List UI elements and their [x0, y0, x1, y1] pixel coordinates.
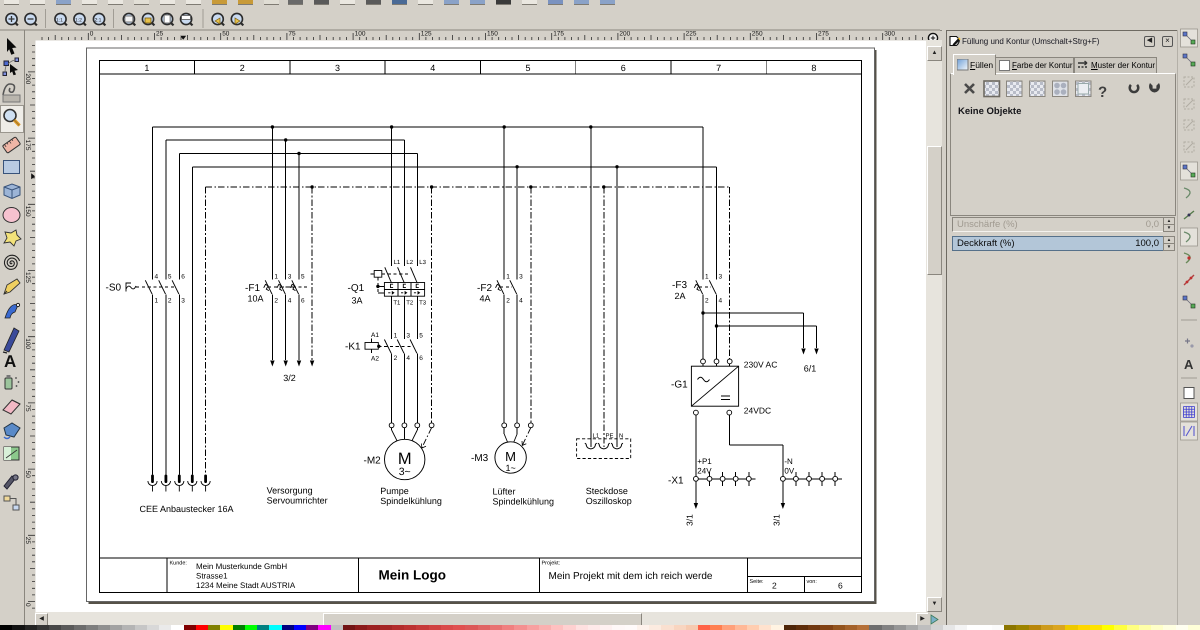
- svg-text:1: 1: [144, 63, 149, 73]
- svg-text:3: 3: [181, 298, 185, 305]
- svg-text:1: 1: [274, 274, 278, 281]
- svg-text:1: 1: [155, 298, 159, 305]
- wire X1 0V to sheet 3/1: [772, 486, 786, 526]
- wire G1 0V to X1: [729, 415, 783, 476]
- label CEE Anbaustecker 16A: [140, 504, 234, 514]
- svg-text:2: 2: [394, 355, 398, 362]
- svg-text:3: 3: [519, 274, 523, 281]
- svg-text:T3: T3: [419, 300, 427, 307]
- svg-text:175: 175: [553, 31, 564, 38]
- svg-text:4: 4: [430, 63, 435, 73]
- svg-text:L1: L1: [394, 259, 401, 266]
- label 6/1: [804, 364, 817, 374]
- svg-text:230V AC: 230V AC: [744, 360, 778, 370]
- terminals above M3: [502, 423, 520, 442]
- bottom-right corner + palette arrow: [928, 612, 942, 625]
- svg-text:125: 125: [421, 31, 432, 38]
- svg-text:-Q1: -Q1: [348, 283, 365, 294]
- svg-text:2: 2: [772, 581, 777, 591]
- svg-text:A1: A1: [371, 332, 379, 339]
- svg-text:Spindelkühlung: Spindelkühlung: [380, 496, 442, 506]
- svg-text:300: 300: [884, 31, 895, 38]
- gap between canvas and panel: [942, 30, 946, 625]
- svg-text:275: 275: [818, 31, 829, 38]
- node branch 6/1 feeders: [701, 311, 818, 354]
- wire K1 to motor M2: [392, 354, 418, 423]
- svg-text:1234 Meine Stadt AUSTRIA: 1234 Meine Stadt AUSTRIA: [196, 581, 296, 590]
- svg-text:2: 2: [240, 63, 245, 73]
- svg-text:2: 2: [168, 298, 172, 305]
- svg-text:L3: L3: [419, 259, 426, 266]
- svg-text:L1: L1: [593, 433, 600, 440]
- breaker F1 10A (3-pole): [245, 125, 307, 304]
- svg-text:225: 225: [686, 31, 697, 38]
- wire Q1 to K1: [392, 296, 418, 339]
- svg-text:-X1: -X1: [668, 476, 684, 487]
- svg-text:75: 75: [24, 404, 31, 412]
- svg-text:3A: 3A: [352, 296, 363, 306]
- svg-text:1: 1: [705, 274, 709, 281]
- canvas white area: [35, 40, 926, 612]
- svg-text:Oszilloskop: Oszilloskop: [586, 496, 632, 506]
- svg-text:3: 3: [335, 63, 340, 73]
- svg-text:4A: 4A: [480, 294, 491, 304]
- svg-text:2: 2: [705, 298, 709, 305]
- svg-text:0V: 0V: [784, 467, 794, 476]
- svg-text:Lüfter: Lüfter: [493, 487, 516, 497]
- svg-text:L2: L2: [406, 259, 413, 266]
- svg-text:PE: PE: [606, 433, 614, 440]
- svg-text:Kunde:: Kunde:: [170, 561, 188, 567]
- wire PE drop to M2 (dash-dot): [422, 185, 435, 448]
- wire X1 24V to sheet 3/1: [685, 486, 699, 526]
- svg-text:Mein Logo: Mein Logo: [379, 568, 447, 583]
- wire PE bus (dash-dot): [206, 187, 730, 475]
- svg-text:4: 4: [288, 298, 292, 305]
- wire PE drop at F1 (dash-dot): [310, 185, 314, 366]
- switch S0 (main switch, 3-pole): [106, 274, 186, 305]
- label Steckdose Oszilloskop: [586, 486, 632, 506]
- svg-text:25: 25: [24, 537, 31, 545]
- wire S0 to CEE plug: [153, 294, 180, 474]
- svg-text:?: ?: [1098, 84, 1107, 101]
- svg-text:4: 4: [719, 298, 723, 305]
- breaker F3 2A (2-pole): [672, 127, 723, 305]
- svg-text:50: 50: [24, 471, 31, 479]
- svg-text:50: 50: [222, 31, 230, 38]
- wire L2 bus: [166, 140, 405, 280]
- svg-text:150: 150: [24, 206, 31, 217]
- svg-text:100: 100: [355, 31, 366, 38]
- terminals above M2: [389, 423, 419, 441]
- wires F1 down with arrows: [270, 294, 301, 366]
- svg-text:200: 200: [619, 31, 630, 38]
- svg-text:1: 1: [394, 333, 398, 340]
- svg-text:0: 0: [24, 603, 31, 607]
- svg-text:6: 6: [301, 298, 305, 305]
- svg-text:6/1: 6/1: [804, 364, 817, 374]
- contactor K1 (coil and 3 contacts): [345, 332, 423, 363]
- svg-text:3: 3: [719, 274, 723, 281]
- svg-text:175: 175: [24, 140, 31, 151]
- page sheet: [87, 48, 877, 604]
- svg-text:Spindelkühlung: Spindelkühlung: [493, 497, 555, 507]
- right snap toolbar: [1177, 30, 1200, 625]
- svg-text:3: 3: [406, 333, 410, 340]
- power supply G1 (230V AC to 24VDC): [671, 359, 777, 416]
- terminal strip X1 +P1 24V group: [668, 457, 756, 487]
- svg-text:1: 1: [506, 274, 510, 281]
- main toolbar remnant (top strip): [0, 0, 1200, 5]
- wire F2 to motor M3: [504, 294, 517, 423]
- colour palette: [0, 625, 1200, 630]
- vertical scrollbar: [926, 40, 942, 612]
- svg-text:25: 25: [156, 31, 164, 38]
- svg-text:5: 5: [419, 333, 423, 340]
- title block: [99, 558, 861, 592]
- wire F3 to G1: [703, 294, 717, 359]
- svg-text:Keine Objekte: Keine Objekte: [958, 106, 1021, 117]
- svg-text:1~: 1~: [505, 463, 515, 473]
- svg-text:5: 5: [526, 63, 531, 73]
- connector X0 CEE plug pins: [148, 475, 210, 492]
- label Pumpe Spindelkuehlung: [380, 486, 442, 506]
- wire G1 +24V to X1: [695, 415, 697, 476]
- label 3/2: [283, 373, 296, 383]
- wire N bus: [192, 167, 716, 475]
- svg-text:5: 5: [301, 274, 305, 281]
- label Versorgung Servoumrichter: [267, 486, 328, 506]
- drawing frame border: [99, 61, 861, 593]
- svg-text:2: 2: [506, 298, 510, 305]
- svg-text:250: 250: [752, 31, 763, 38]
- svg-text:7: 7: [716, 63, 721, 73]
- svg-text:Seite:: Seite:: [750, 579, 765, 585]
- schematic drawing: [35, 40, 926, 612]
- svg-text:6: 6: [838, 581, 843, 591]
- svg-text:von:: von:: [807, 579, 818, 585]
- svg-text:-M2: -M2: [364, 456, 382, 467]
- svg-text:75: 75: [288, 31, 296, 38]
- svg-text:2A: 2A: [675, 291, 686, 301]
- svg-text:-G1: -G1: [671, 380, 688, 391]
- breaker F2 4A (2-pole): [477, 125, 523, 304]
- left tool palette: [0, 30, 25, 625]
- svg-text:4: 4: [155, 274, 159, 281]
- svg-text:3/1: 3/1: [772, 514, 782, 526]
- horizontal scrollbar: [35, 612, 928, 625]
- svg-text:T2: T2: [406, 300, 414, 307]
- svg-text:-N: -N: [784, 457, 793, 466]
- svg-text:3/2: 3/2: [283, 373, 296, 383]
- svg-text:0: 0: [90, 31, 94, 38]
- svg-text:+P1: +P1: [697, 457, 712, 466]
- svg-text:24VDC: 24VDC: [744, 406, 771, 416]
- svg-text:M: M: [505, 449, 516, 464]
- svg-text:6: 6: [181, 274, 185, 281]
- svg-text:Versorgung: Versorgung: [267, 486, 313, 496]
- wire drops to socket outlet: [589, 125, 619, 447]
- wire L3 bus: [179, 154, 417, 280]
- svg-text:Steckdose: Steckdose: [586, 486, 628, 496]
- svg-text:4: 4: [519, 298, 523, 305]
- svg-text:150: 150: [487, 31, 498, 38]
- svg-text:Strasse1: Strasse1: [196, 572, 228, 581]
- svg-text:10A: 10A: [248, 294, 264, 304]
- svg-text:200: 200: [24, 73, 31, 84]
- svg-text:125: 125: [24, 272, 31, 283]
- svg-text:2: 2: [274, 298, 278, 305]
- socket outlet X2 (Steckdose): [577, 433, 631, 459]
- svg-text:CEE Anbaustecker 16A: CEE Anbaustecker 16A: [140, 504, 234, 514]
- wire L1 bus: [153, 127, 704, 280]
- fill &amp; stroke dock panel: [946, 30, 1178, 626]
- svg-text:-S0: -S0: [106, 283, 122, 294]
- svg-text:N: N: [619, 433, 623, 440]
- svg-text:6: 6: [419, 355, 423, 362]
- zoom cursor: [925, 30, 947, 52]
- column header row: [99, 61, 861, 74]
- svg-text:Servoumrichter: Servoumrichter: [267, 496, 328, 506]
- motor M3 (fan): [471, 442, 526, 473]
- svg-text:3~: 3~: [399, 466, 411, 478]
- svg-text:-F2: -F2: [477, 283, 492, 294]
- terminal strip X1 -N 0V group: [781, 457, 842, 486]
- svg-text:5: 5: [168, 274, 172, 281]
- svg-text:6: 6: [621, 63, 626, 73]
- svg-text:3: 3: [288, 274, 292, 281]
- label Luefter Spindelkuehlung: [493, 487, 555, 507]
- svg-text:-K1: -K1: [345, 342, 361, 353]
- svg-text:3/1: 3/1: [685, 514, 695, 526]
- horizontal ruler: [0, 0, 940, 41]
- svg-text:T1: T1: [393, 300, 401, 307]
- svg-text:-F1: -F1: [245, 283, 260, 294]
- svg-text:-F3: -F3: [672, 280, 687, 291]
- motor breaker Q1 3A: [348, 125, 427, 306]
- svg-text:Pumpe: Pumpe: [380, 486, 409, 496]
- svg-text:4: 4: [406, 355, 410, 362]
- zoom command toolbar: [0, 5, 1200, 31]
- svg-text:8: 8: [811, 63, 816, 73]
- svg-text:-M3: -M3: [471, 453, 489, 464]
- vertical ruler: [0, 40, 36, 612]
- svg-text:100: 100: [24, 338, 31, 349]
- motor M2 (3-phase pump): [364, 439, 425, 479]
- wire PE drop to socket (dash-dot): [602, 185, 605, 447]
- svg-text:Projekt:: Projekt:: [542, 561, 561, 567]
- wire PE drop to M3 (dash-dot): [522, 185, 533, 445]
- svg-text:A2: A2: [371, 356, 379, 363]
- svg-text:Mein Projekt mit dem ich reich: Mein Projekt mit dem ich reich werde: [549, 571, 713, 582]
- svg-text:Mein Musterkunde GmbH: Mein Musterkunde GmbH: [196, 562, 287, 571]
